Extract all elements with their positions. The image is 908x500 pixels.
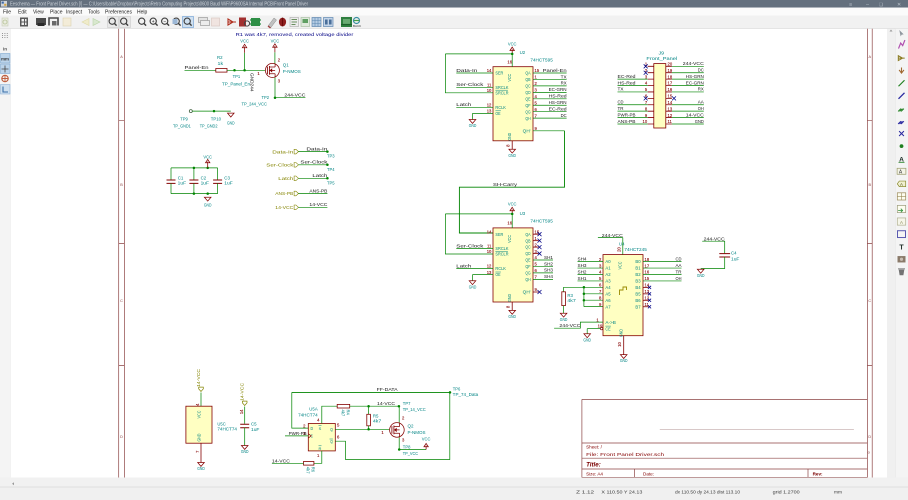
svg-text:QH': QH' [523,290,531,295]
svg-text:4k7: 4k7 [341,410,346,417]
no-connect U3 QB n/c [538,239,542,243]
wire U4 VCC label wire [598,237,623,239]
svg-text:GND: GND [583,337,591,342]
wire U3 GND pin stub [511,302,513,310]
svg-text:Ser-Clock: Ser-Clock [456,82,484,88]
svg-text:SH4: SH4 [544,274,553,280]
wire U3 OE wire [473,274,494,276]
ground U2 OE ground [469,120,476,124]
wire U3 QH wire [533,278,553,280]
wire J9 HS-Red wire [618,85,648,87]
svg-text:4k7: 4k7 [373,418,382,423]
svg-text:U5A: U5A [309,406,318,411]
svg-text:10: 10 [643,119,648,124]
svg-text:Place: Place [50,9,63,15]
svg-text:SH3: SH3 [578,263,587,269]
svg-text:12: 12 [668,113,673,118]
svg-text:ANS-PB: ANS-PB [309,188,327,194]
svg-text:Latch: Latch [456,263,471,269]
wire A4-A7 tie rail [583,287,585,306]
svg-text:1uF: 1uF [178,181,187,186]
svg-text:SRCLK: SRCLK [495,246,508,251]
svg-text:GND: GND [620,358,628,363]
svg-text:VCC: VCC [618,262,623,270]
wire U4 CE down [586,329,588,334]
svg-text:A: A [869,55,872,59]
wire U2 QC wire [533,85,567,87]
wire U2 Ser-Clock wire [456,86,493,88]
svg-text:OE: OE [495,111,500,116]
wire U2 Data-In wire [456,72,493,74]
node TP8 junction [398,448,401,451]
svg-text:TP_GND1: TP_GND1 [173,123,191,128]
wire TP9 to GND [192,110,231,112]
svg-text:R2: R2 [217,55,223,60]
wire J9 CD wire [618,104,648,106]
wire U2 QG wire [533,111,567,113]
wire ANS-PB stub [299,193,328,195]
svg-text:TP_VCC: TP_VCC [403,451,418,456]
svg-text:1k: 1k [218,61,224,66]
svg-text:QA: QA [525,232,530,237]
no-connect J9 pin 2 n/c [644,71,648,75]
svg-text:B0: B0 [635,259,641,264]
wire U3 SRCLR tie-high [445,214,493,254]
wire Latch stub [299,177,328,179]
J9 pin 14 [666,104,672,106]
J9 pin 16 [666,91,672,93]
op-amp U4 74HCT245 body [603,255,643,336]
svg-text:GND: GND [508,153,516,158]
svg-text:18: 18 [668,74,673,79]
wire C2 bottom lead [193,183,195,193]
no-connect U3 QC n/c [538,245,542,249]
svg-text:QD: QD [525,251,530,256]
ground R3 ground [560,313,567,317]
svg-text:GND: GND [241,449,249,454]
svg-text:EC-GRN: EC-GRN [686,80,705,86]
wire C3 top lead [217,168,219,180]
svg-text:244-VCC: 244-VCC [284,92,306,98]
wire C4 bottom lead [701,257,725,269]
svg-text:RCLK: RCLK [495,266,506,271]
svg-text:HS-Red: HS-Red [549,94,567,100]
wire U2 Latch wire [456,106,493,108]
svg-text:SRCLK: SRCLK [495,85,508,90]
svg-text:14: 14 [487,229,492,234]
wire U2 SRCLR tie-high [445,54,493,93]
J9 pin 13 [666,110,672,112]
svg-text:CD: CD [618,100,624,106]
J9 pin 11 [666,123,672,125]
svg-text:GND: GND [619,329,624,337]
svg-text:TP2: TP2 [262,95,270,100]
svg-text:14-VCC: 14-VCC [686,112,705,118]
wire J9 244-VCC wire [672,65,704,67]
svg-text:TP10: TP10 [211,116,222,121]
no-connect J9 pin 6 n/c [644,96,648,100]
svg-text:VCC: VCC [508,42,517,47]
svg-text:TP5: TP5 [327,180,335,185]
svg-text:SH2: SH2 [544,261,553,267]
wire U4 B4 stub [643,286,649,288]
wire U5C GND pin wire [200,443,202,462]
node top rail j2 [206,167,209,170]
wire U2 OE down [472,113,474,119]
ground U2 ground [509,149,516,153]
hierarchical label Data-In [294,149,298,154]
node A-rail junction y293.8 [583,293,586,296]
svg-text:17: 17 [645,263,650,268]
svg-text:B: B [869,183,872,187]
svg-text:EC-Red: EC-Red [618,74,636,80]
wire U4 B5 stub [643,293,649,295]
svg-text:B2: B2 [635,272,641,277]
resistor R5 body [367,414,371,426]
svg-text:16: 16 [507,221,512,226]
svg-text:Z 1.12: Z 1.12 [576,489,595,494]
svg-text:SRCLR: SRCLR [495,252,508,257]
no-connect U4 B7 n/c [648,305,651,308]
wire J9 DC wire [672,72,704,74]
svg-text:1uF: 1uF [201,181,210,186]
svg-text:TP_Panel_En: TP_Panel_En [222,81,251,86]
svg-text:X 110.50 Y 24.13: X 110.50 Y 24.13 [601,489,643,494]
ground U4 ground [620,355,627,359]
svg-text:12: 12 [487,103,492,108]
svg-text:TR: TR [676,269,682,275]
no-connect J9 pin 15 n/c [672,96,676,100]
wire U5A Q to Q2 gate [335,428,389,430]
wire U2 GND pin stub [511,141,513,149]
wire J9 RX wire [672,91,704,93]
node TP10 junction [213,110,216,113]
J9 pin 2 [648,72,654,74]
op-amp U5C 74HCT74 power unit body [186,406,212,443]
J9 pin 7 [648,104,654,106]
svg-text:A7: A7 [605,304,611,309]
J9 pin 3 [648,78,654,80]
svg-text:CE: CE [605,326,610,331]
hierarchical label ANS-PB [294,191,298,196]
svg-text:12: 12 [487,264,492,269]
J9 pin 10 [648,123,654,125]
svg-text:QF: QF [525,264,531,269]
power VCC near TP1 [244,53,246,71]
wire U3 QC stub [533,246,539,248]
svg-text:grid 1.2700: grid 1.2700 [773,489,801,494]
svg-text:13: 13 [668,106,673,111]
node VCC junction [243,69,246,72]
svg-text:10: 10 [487,249,492,254]
no-connect U4 B4 n/c [648,286,651,289]
svg-text:15: 15 [645,276,650,281]
svg-text:≡: ≡ [849,2,852,8]
svg-text:DC: DC [698,68,704,74]
svg-text:74HCT74: 74HCT74 [298,413,318,418]
node top rail j1 [193,167,196,170]
svg-text:TP1: TP1 [233,74,241,79]
wire Q2 source down [398,437,400,449]
svg-text:GND: GND [507,294,512,302]
svg-text:Q2: Q2 [408,424,415,429]
svg-text:TP6: TP6 [453,386,461,391]
wire U2 QE wire [533,98,567,100]
svg-text:AA: AA [676,263,683,269]
svg-text:TP_244_VCC: TP_244_VCC [242,101,268,106]
wire U2 OE wire [473,112,494,114]
svg-text:A->B: A->B [605,320,616,325]
svg-text:Ser-Clock: Ser-Clock [456,243,484,249]
wire J9 14-VCC wire [672,117,704,119]
node R5 top junction [367,405,370,408]
svg-text:J9: J9 [659,50,665,55]
sheet frame border [119,28,873,478]
svg-text:10: 10 [487,88,492,93]
svg-text:17: 17 [668,81,673,86]
wire U4 CE wire [587,328,600,330]
svg-text:TP_GND2: TP_GND2 [200,123,218,128]
svg-text:SER: SER [495,71,503,76]
svg-text:GND: GND [469,123,477,128]
ground U3 OE ground [469,281,476,285]
resistor R4 body [337,404,350,408]
svg-text:13: 13 [487,270,492,275]
left toolbar [0,29,11,478]
wire U4 DIR wire [554,322,603,328]
svg-text:OH: OH [698,106,704,112]
wire U5A pin4 to R4 [322,406,337,423]
svg-text:74HCT245: 74HCT245 [624,247,647,252]
svg-text:B5: B5 [635,291,641,296]
svg-text:R1 was 4k7, removed, created v: R1 was 4k7, removed, created voltage div… [236,32,354,37]
wire U4 B3 wire [643,280,682,282]
svg-text:Date:: Date: [643,471,654,476]
wire J9 HS-GRN wire [672,78,704,80]
svg-text:A: A [900,182,903,187]
wire C4 top lead [702,241,725,253]
svg-text:TP3: TP3 [327,154,335,159]
power VCC cap bank [206,159,210,168]
svg-text:C5: C5 [251,421,257,426]
svg-text:A5: A5 [605,291,611,296]
svg-text:U3: U3 [520,211,526,216]
svg-text:A1: A1 [605,266,611,271]
node bottom rail j2 [206,192,209,195]
svg-text:74HCT595: 74HCT595 [530,58,553,63]
wire C5 bottom lead [244,428,246,446]
svg-text:VCC: VCC [422,436,431,441]
title block [582,399,868,478]
wire U3 QG wire [533,272,553,274]
svg-text:Data-In: Data-In [456,68,477,74]
svg-text:R4: R4 [346,410,351,416]
svg-text:Tools: Tools [88,9,100,15]
wire J9 TR wire [618,110,648,112]
wire U2 VCC to SRCLR rail [445,53,512,55]
svg-text:in: in [3,47,7,52]
wire R3 to ground [563,306,565,314]
J9 pin 4 [648,85,654,87]
svg-text:GND: GND [697,273,705,278]
svg-text:Inspect: Inspect [66,9,83,15]
svg-text:P-NMOS: P-NMOS [283,69,301,74]
svg-text:FF-DATA: FF-DATA [377,387,399,393]
wire Q-bar feedback loop [335,392,450,459]
transistor Q2 (P-MOSFET) [390,423,405,438]
ground U3 ground [509,310,516,314]
svg-text:GND: GND [508,314,516,319]
svg-text:GND: GND [204,202,212,207]
svg-text:TP_74_Data: TP_74_Data [453,392,479,397]
wire U4 VCC pin [622,238,624,255]
wire TP8 to VCC [399,449,426,451]
svg-text:HS-Red: HS-Red [618,80,636,86]
J9 pin 1 [648,65,654,67]
wire cap bank bottom rail [171,193,218,195]
svg-text:QB: QB [525,77,530,82]
svg-text:14-VCC: 14-VCC [275,205,294,211]
svg-text:OH: OH [676,276,682,282]
svg-text:RX: RX [698,87,705,93]
op-amp U5A 74HCT74 flip-flop body [308,424,335,451]
power VCC near Q2 [424,443,428,449]
node TP2 junction [274,96,277,99]
ground U4 CE ground [584,334,591,338]
svg-text:A0: A0 [605,259,611,264]
svg-text:P-NMOS: P-NMOS [408,430,426,435]
wire U2 QA wire [533,72,567,74]
svg-text:VCC: VCC [271,39,280,44]
resistor R2 body [216,69,227,73]
no-connect U3 QA n/c [538,232,542,236]
svg-text:74HCT595: 74HCT595 [530,219,553,224]
J9 pin 15 [666,97,672,99]
svg-text:Data-In: Data-In [306,146,327,152]
svg-text:D: D [120,435,123,439]
hierarchical label 14-VCC (vertical, C5) [242,401,247,405]
node TP4 junction [326,164,329,167]
U4 CE bubble [600,327,602,329]
wire C5 top lead [244,407,246,424]
svg-text:Sheet: /: Sheet: / [586,445,603,450]
svg-text:VCC: VCC [508,202,517,207]
svg-text:R6: R6 [311,467,316,473]
svg-text:SH2: SH2 [578,269,587,275]
node U2 VCC junction [511,53,514,56]
bottom scroll strip [0,478,908,488]
svg-text:VCC: VCC [240,39,249,44]
svg-text:SH1: SH1 [578,276,587,282]
svg-text:VCC: VCC [507,74,512,82]
svg-text:AA: AA [698,100,705,106]
J9 pin 20 [666,65,672,67]
svg-text:TP7: TP7 [403,401,411,406]
status bar [0,487,908,500]
svg-text:C: C [120,299,123,303]
wire U3 Ser-Clock wire [456,248,493,250]
wire C3 bottom lead [217,183,219,193]
svg-text:B6: B6 [635,298,641,303]
svg-text:GND: GND [695,119,704,125]
svg-text:mm: mm [1,57,9,62]
node TP6 junction [449,391,452,394]
svg-text:74HCT74: 74HCT74 [217,427,237,432]
J9 pin 5 [648,91,654,93]
wire U4 B0 wire [643,261,682,263]
svg-text:13: 13 [487,109,492,114]
svg-text:U4: U4 [619,241,625,246]
svg-text:SRCLR: SRCLR [495,90,508,95]
wire cap bank top rail [171,167,218,169]
wire SH wire row 3 [578,280,604,282]
svg-text:14: 14 [487,68,492,73]
power VCC at Q1 drain [274,52,276,63]
svg-text:View: View [33,9,44,15]
wire R2 to Q1 gate [227,69,266,71]
wire TP7 to Q2 drain [398,406,400,422]
svg-text:Ser-Clock: Ser-Clock [266,163,294,169]
wire U3 QH' stub [533,291,539,293]
wire U4 B1 wire [643,267,682,269]
wire FF-DATA to D input [292,392,309,428]
no-connect U4 B5 n/c [648,292,651,295]
svg-text:R: R [319,446,322,451]
svg-text:18: 18 [645,257,650,262]
svg-text:GND: GND [227,120,235,125]
svg-text:EC-GRN: EC-GRN [549,87,568,93]
svg-text:11: 11 [668,119,673,124]
svg-text:B3: B3 [635,279,641,284]
svg-text:SER: SER [495,232,503,237]
svg-text:A: A [900,220,903,225]
capacitor C5 plates [240,424,249,427]
svg-text:dx 110.50 dy 24.13 dist 113.10: dx 110.50 dy 24.13 dist 113.10 [675,489,741,494]
svg-text:SH4: SH4 [578,256,587,262]
svg-text:4k7: 4k7 [306,467,311,474]
svg-text:B4: B4 [635,285,641,290]
capacitor C1 plates [167,180,176,183]
wire Panel-En to R2 [185,69,216,71]
wire J9 TX wire [618,91,648,93]
svg-text:File: File [3,9,11,15]
wire U3 QB stub [533,240,539,242]
svg-text:QA: QA [525,71,530,76]
wire U4 B6 stub [643,299,649,301]
wire SH-Carry net [459,131,564,233]
wire J9 GND wire [672,123,704,125]
hierarchical label Ser-Clock [294,163,298,168]
svg-text:D: D [311,426,314,431]
svg-text:A6: A6 [605,298,611,303]
wire A-rail stub y306.6 [584,306,603,308]
wire U5C VCC pin wire [200,393,202,407]
wire PWR-PB wire [285,435,308,437]
J9 pin 9 [648,117,654,119]
svg-text:QC: QC [525,84,530,89]
svg-text:Eeschema — Front Panel Driver.: Eeschema — Front Panel Driver.sch [/] — … [10,2,308,8]
wire R3 top to A4 rail [564,287,584,292]
no-connect J9 pin 1 n/c [644,64,648,68]
wire A-rail stub y287.3 [584,286,603,288]
wire U2 QF wire [533,104,567,106]
wire R5 top lead [368,406,370,414]
svg-text:TR: TR [618,106,624,112]
svg-text:TP8: TP8 [403,444,411,449]
svg-text:File: Front Panel Driver.sch: File: Front Panel Driver.sch [586,452,665,457]
svg-text:Title:: Title: [586,461,601,468]
J9 pin 6 [648,97,654,99]
